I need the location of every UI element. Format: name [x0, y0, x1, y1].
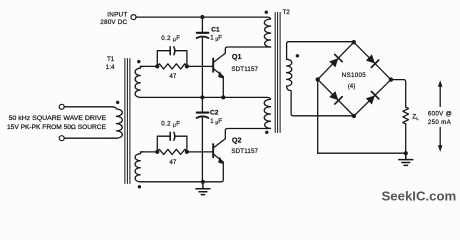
node ZL / ground — [404, 151, 408, 155]
label T1 1:4 — [106, 56, 115, 71]
label NS1005 (4) — [342, 72, 366, 90]
resistor 47 (Q2) — [157, 149, 187, 154]
svg-text:1 µF: 1 µF — [210, 35, 222, 43]
bridge edge top-right — [354, 42, 391, 79]
capacitor 0.2uF (Q2) — [157, 136, 187, 152]
svg-text:280V DC: 280V DC — [100, 19, 127, 26]
label INPUT 280V DC — [100, 12, 127, 27]
svg-text:NS1005: NS1005 — [342, 72, 366, 79]
wire C2 upper stub — [201, 97, 203, 111]
wire T2 secondary top lead — [287, 42, 354, 60]
svg-text:SeekIC.com: SeekIC.com — [382, 188, 457, 203]
bridge edge left-top — [318, 42, 354, 79]
wire ZL to bottom rail — [405, 124, 407, 153]
transformer T1 primary winding — [111, 107, 122, 138]
phase dot T2 secondary — [296, 54, 299, 57]
node RC left (Q2) — [155, 150, 159, 154]
capacitor C2 — [197, 112, 209, 114]
transformer T1 core — [125, 59, 130, 184]
phase dot T2 primary top — [265, 11, 268, 14]
svg-text:1:4: 1:4 — [106, 64, 115, 71]
wire Q1 collector to T2 — [225, 47, 270, 53]
output dimension arrow — [439, 85, 441, 147]
diode D3 (left to bottom) — [329, 90, 343, 104]
wire mid rail — [140, 97, 270, 99]
wire bridge right node to load — [391, 80, 406, 108]
watermark SeekIC.com — [382, 188, 457, 203]
node bridge bottom — [352, 114, 356, 118]
wire Q1 emitter down — [222, 77, 224, 98]
wire Q2 base row — [140, 151, 157, 153]
diode D2 (top to right) — [365, 54, 379, 68]
svg-text:1 µF: 1 µF — [210, 118, 222, 126]
wire Q2 emitter down to bottom rail — [140, 162, 223, 182]
ground (right) — [399, 153, 413, 165]
svg-text:C1: C1 — [211, 27, 220, 34]
svg-text:INPUT: INPUT — [107, 12, 127, 19]
label 600V 250mA — [428, 111, 452, 127]
svg-text:250 mA: 250 mA — [428, 119, 452, 126]
resistor ZL — [403, 107, 409, 124]
node bottom rail / ground — [201, 180, 205, 184]
svg-text:SDT1157: SDT1157 — [231, 148, 258, 155]
capacitor C1 — [197, 32, 209, 34]
wire drive lower — [64, 137, 111, 139]
transformer T1 secondary top winding — [135, 66, 143, 97]
svg-text:0.2 µF: 0.2 µF — [161, 121, 180, 129]
wire C1 upper stub — [201, 17, 203, 32]
node RC left (Q1) — [155, 64, 159, 68]
transistor Q1 — [212, 59, 214, 72]
svg-text:T1: T1 — [107, 56, 115, 63]
transformer T2 primary top winding — [264, 17, 270, 47]
capacitor 0.2uF (Q1) — [157, 51, 187, 67]
wire C1 to mid rail — [201, 37, 203, 97]
wire resistor to Q1 base — [187, 65, 213, 67]
node bridge left — [316, 77, 320, 81]
wire drive upper — [64, 106, 111, 108]
svg-text:Q1: Q1 — [232, 52, 242, 61]
transformer T1 secondary bottom winding — [135, 152, 143, 182]
wire C2 to bottom rail — [201, 117, 203, 182]
svg-text:T2: T2 — [283, 9, 291, 16]
transformer T2 secondary winding — [287, 59, 292, 86]
bridge edge bottom-right — [354, 80, 391, 116]
terminal drive upper — [59, 104, 64, 109]
terminal drive lower — [59, 136, 64, 141]
svg-text:600V @: 600V @ — [428, 111, 452, 118]
resistor 47 (Q1) — [157, 64, 187, 69]
transistor Q2 — [212, 144, 214, 157]
node mid rail / C1-C2 — [200, 95, 204, 99]
wire resistor to Q2 base — [187, 151, 213, 153]
phase dot T1 secondary top — [137, 60, 140, 63]
diode D4 (bottom to right) — [365, 92, 379, 106]
node RC right (Q1) — [185, 64, 189, 68]
node RC right (Q2) — [185, 150, 189, 154]
wire bridge left node down — [317, 79, 319, 153]
wire Q2 collector to T2 — [225, 129, 270, 139]
ground (left) — [196, 182, 210, 195]
wire Q1 base row — [140, 65, 157, 67]
svg-text:47: 47 — [169, 73, 176, 80]
input terminal — [131, 15, 136, 20]
phase dot T1 secondary bottom — [138, 185, 141, 188]
svg-text:C2: C2 — [210, 110, 219, 117]
svg-text:50 kHz SQUARE WAVE DRIVE: 50 kHz SQUARE WAVE DRIVE — [9, 115, 107, 122]
phase dot T2 primary bottom — [265, 131, 268, 134]
svg-text:0.2 µF: 0.2 µF — [161, 35, 180, 43]
node top rail / C1 junction — [200, 15, 204, 19]
node bridge top — [352, 40, 356, 44]
svg-text:47: 47 — [169, 159, 176, 166]
wire T2 secondary bottom lead — [287, 86, 354, 116]
label 50kHz source — [7, 115, 106, 131]
label T2 — [283, 9, 291, 16]
transformer T2 core — [275, 13, 280, 133]
svg-text:SDT1157: SDT1157 — [231, 66, 258, 73]
wire top rail — [136, 16, 266, 18]
svg-text:(4): (4) — [348, 83, 356, 90]
svg-text:Q2: Q2 — [232, 136, 242, 145]
bridge edge left-bottom — [318, 79, 354, 116]
phase dot T1 primary — [116, 101, 119, 104]
node bridge right — [389, 77, 393, 81]
node Q1 emitter / mid rail — [221, 95, 225, 99]
wire bottom output rail — [318, 152, 406, 154]
diode D1 (left to top) — [329, 54, 343, 68]
svg-text:15V PK-PK FROM 50Ω SOURCE: 15V PK-PK FROM 50Ω SOURCE — [7, 124, 106, 131]
transformer T2 primary bottom winding — [264, 99, 270, 128]
